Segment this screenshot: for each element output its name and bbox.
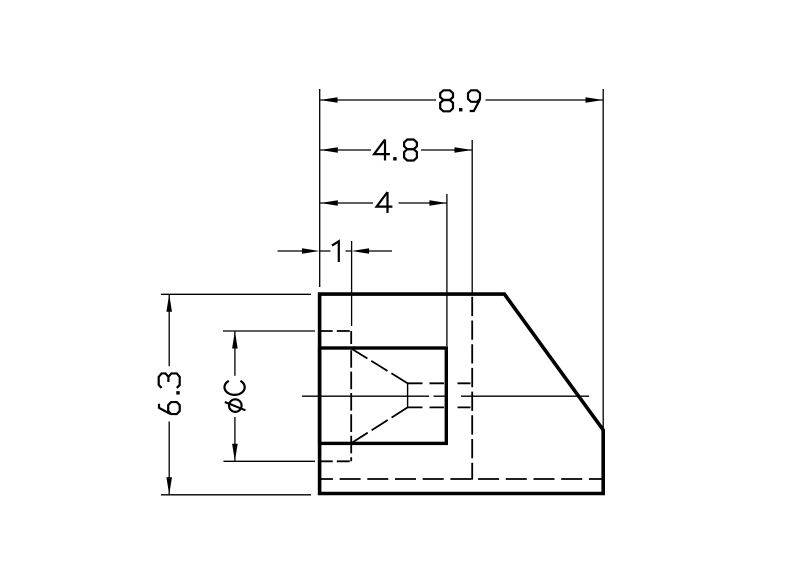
arrow 4 left: [320, 200, 338, 206]
arrow dia C bottom: [232, 444, 238, 462]
dimension line dia C (vertical): [234, 331, 236, 461]
pocket rectangle (counterbore, visible edge): [320, 348, 447, 443]
dimension line 1 (outside arrows): [320, 250, 352, 252]
arrow dia C top: [232, 331, 238, 349]
extension line hole top (dia C dim): [223, 330, 315, 332]
hidden line: small hole top edge: [408, 382, 471, 384]
text 4.8: [374, 140, 417, 161]
text 1: [332, 241, 339, 262]
extension line right (part right edge): [602, 89, 604, 430]
hidden line: hole top edge: [320, 330, 352, 332]
text 8.9: [440, 90, 480, 111]
extension line x=472 (4.8 dim): [471, 140, 473, 294]
dimension line 8.9: [320, 99, 603, 101]
centerline of hole: [302, 395, 589, 397]
arrow 1 left with tail: [278, 250, 304, 252]
arrow 4.8 left: [320, 147, 338, 153]
hidden line: small hole bottom edge: [408, 406, 471, 408]
text 6.3 (rotated): [159, 373, 180, 414]
dimension line 4.8: [320, 149, 472, 151]
arrow 8.9 right: [586, 97, 604, 103]
hidden line: countersink cone lower diagonal: [351, 407, 407, 443]
hidden line: vertical step edge: [471, 297, 473, 480]
arrow 6.3 bottom: [166, 477, 172, 495]
extension line top (6.3 dim): [161, 293, 311, 295]
hidden line: bottom step edge: [320, 478, 602, 480]
cone apex vertical segment: [407, 383, 409, 409]
extension line left (part left edge): [319, 89, 321, 287]
extension line x=447 (4 dim): [446, 194, 448, 346]
arrow 4 right: [429, 200, 447, 206]
extension line x=351.6 (1 dim): [351, 241, 353, 326]
hidden line: countersink cone upper diagonal: [351, 349, 407, 384]
extension line bottom (6.3 dim): [161, 494, 311, 496]
hidden line: hole back vertical: [350, 331, 352, 461]
part outline (front view, chamfered block): [320, 294, 604, 493]
dimension line 6.3 (vertical): [168, 294, 170, 495]
hidden line: hole bottom edge: [320, 460, 352, 462]
dimension line 4: [320, 202, 447, 204]
arrow 8.9 left: [320, 97, 338, 103]
arrow 6.3 top: [166, 294, 172, 312]
text dia C (rotated): [225, 381, 246, 412]
extension line hole bottom (dia C dim): [224, 460, 316, 462]
text 4: [377, 192, 393, 213]
arrow 4.8 right: [455, 147, 473, 153]
arrow 1 right with tail: [368, 250, 392, 252]
